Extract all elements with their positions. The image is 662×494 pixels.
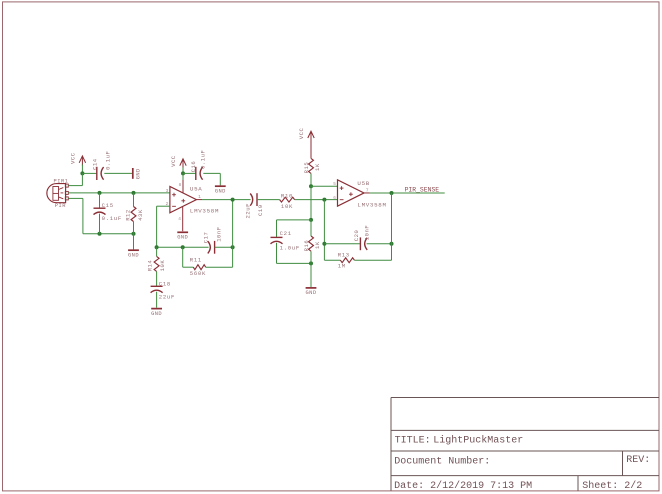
svg-text:0.1uF: 0.1uF	[200, 150, 207, 169]
title block	[391, 398, 659, 491]
node junction bias-bot	[309, 261, 313, 265]
svg-text:Document Number:: Document Number:	[394, 455, 490, 467]
svg-text:PIR1: PIR1	[54, 178, 69, 184]
wire	[82, 172, 96, 174]
title text	[395, 435, 524, 447]
wire	[277, 243, 312, 264]
wire	[156, 271, 158, 286]
capacitor C21 1.0uF	[271, 230, 300, 252]
wire	[323, 200, 325, 261]
svg-text:GND: GND	[306, 290, 317, 296]
svg-text:VCC: VCC	[170, 155, 177, 167]
R16 labels	[303, 240, 321, 252]
svg-text:C15: C15	[102, 202, 114, 209]
svg-text:GND: GND	[177, 235, 188, 241]
svg-text:6: 6	[333, 196, 336, 201]
wire	[133, 222, 135, 250]
wire	[99, 193, 101, 208]
resistor R10 10K	[280, 197, 295, 202]
wire	[203, 173, 220, 185]
node junction fb-left	[155, 245, 159, 249]
wire	[367, 243, 392, 245]
wire	[156, 292, 158, 308]
svg-text:Date: 2/12/2019 7:13 PM: Date: 2/12/2019 7:13 PM	[394, 480, 532, 492]
wire	[310, 140, 312, 159]
document number text	[394, 455, 490, 467]
wire	[183, 172, 195, 174]
svg-text:10K: 10K	[281, 203, 293, 210]
svg-text:10K: 10K	[159, 260, 166, 272]
svg-text:R10: R10	[281, 193, 293, 200]
wire	[310, 220, 312, 236]
R15 labels	[303, 162, 321, 174]
wire	[104, 172, 132, 174]
wire	[215, 246, 233, 248]
wire	[257, 199, 280, 201]
wire	[324, 259, 340, 261]
svg-text:R12: R12	[124, 209, 131, 221]
svg-text:1.0uF: 1.0uF	[280, 245, 300, 252]
svg-text:GND: GND	[151, 311, 162, 317]
svg-text:560K: 560K	[190, 270, 206, 277]
svg-text:C17: C17	[203, 232, 210, 244]
wire	[324, 243, 360, 245]
svg-text:1K: 1K	[314, 163, 321, 171]
capacitor C19 22uF	[244, 193, 263, 218]
svg-text:REV:: REV:	[626, 455, 650, 466]
svg-text:8: 8	[179, 183, 182, 188]
node junction fb2-right	[390, 242, 394, 246]
svg-text:22uF: 22uF	[159, 293, 175, 300]
capacitor C17 10nF	[203, 226, 223, 253]
svg-text:R15: R15	[303, 162, 310, 174]
capacitor C20 10nF	[353, 225, 371, 250]
svg-text:VCC: VCC	[70, 152, 77, 164]
node junction out2	[390, 191, 394, 195]
ground (after C16)	[215, 186, 226, 194]
wire	[68, 198, 133, 233]
svg-text:LMV358M: LMV358M	[190, 208, 219, 215]
wire	[157, 246, 209, 248]
ground (below C18)	[151, 309, 162, 317]
capacitor C15	[94, 202, 122, 222]
ground (U5A pin 4)	[177, 232, 188, 240]
node junction out1	[231, 198, 235, 202]
wire	[99, 214, 101, 234]
svg-text:GND: GND	[128, 253, 139, 259]
svg-text:0.1uF: 0.1uF	[102, 215, 122, 222]
date text	[394, 480, 532, 492]
R11 labels	[190, 256, 206, 277]
svg-text:PIR_SENSE: PIR_SENSE	[405, 187, 440, 194]
wire	[295, 199, 338, 201]
capacitor C18 22uF	[151, 281, 175, 301]
wire	[182, 167, 184, 173]
R12 labels	[124, 209, 144, 221]
svg-text:10nF: 10nF	[215, 226, 222, 241]
svg-text:4: 4	[178, 217, 181, 222]
PIR sensor PIR1	[47, 178, 69, 208]
node junction pin6	[322, 198, 326, 202]
svg-text:10nF: 10nF	[363, 225, 370, 240]
svg-text:0.1uF: 0.1uF	[105, 151, 112, 170]
svg-text:R13: R13	[338, 251, 350, 258]
wire	[156, 247, 158, 256]
wire	[81, 165, 83, 174]
R14 labels	[147, 260, 167, 272]
svg-text:1K: 1K	[314, 241, 321, 249]
svg-text:R14: R14	[147, 260, 154, 272]
svg-text:C19: C19	[257, 204, 264, 216]
svg-text:Sheet: 2/2: Sheet: 2/2	[582, 480, 642, 492]
wire	[277, 220, 312, 238]
node junction C15	[98, 191, 102, 195]
svg-text:C20: C20	[353, 229, 360, 241]
svg-text:22uF: 22uF	[244, 203, 251, 218]
resistor R14 10K	[154, 256, 159, 271]
ground (after C14)	[133, 168, 142, 179]
ground (bias divider)	[306, 288, 317, 296]
svg-text:VCC: VCC	[298, 127, 305, 139]
svg-text:GND: GND	[215, 189, 226, 195]
svg-text:C18: C18	[159, 281, 171, 288]
wire	[310, 186, 312, 220]
svg-text:PIR: PIR	[55, 203, 66, 209]
wire	[364, 192, 370, 194]
op-amp U5B LMV358M	[333, 180, 386, 209]
node junction VCC1	[80, 171, 84, 175]
svg-text:U5A: U5A	[190, 186, 203, 193]
op-amp U5A pin 8 wire	[179, 173, 183, 192]
power VCC (bias)	[298, 127, 314, 140]
wire	[391, 193, 393, 260]
node junction bias-mid	[309, 218, 313, 222]
power VCC (U5A)	[170, 155, 186, 168]
svg-text:C16: C16	[190, 161, 197, 173]
svg-text:R16: R16	[303, 240, 310, 252]
wire	[196, 199, 202, 201]
wire	[310, 173, 312, 186]
node junction R12	[132, 191, 136, 195]
node junction fb-right	[231, 245, 235, 249]
svg-text:LightPuckMaster: LightPuckMaster	[433, 435, 523, 447]
svg-text:43K: 43K	[137, 209, 144, 221]
wire	[370, 192, 445, 194]
node junction fb-R11	[181, 245, 185, 249]
svg-text:5: 5	[333, 182, 336, 187]
svg-text:C21: C21	[280, 230, 292, 237]
wire	[183, 247, 194, 267]
wire	[354, 259, 391, 261]
wire	[157, 206, 170, 247]
power VCC (PIR)	[70, 152, 86, 165]
wire	[310, 251, 312, 287]
capacitor C14	[92, 151, 112, 180]
node junction VCC-U5A	[181, 171, 185, 175]
capacitor C16	[190, 150, 206, 180]
svg-text:LMV358M: LMV358M	[357, 201, 386, 208]
svg-text:C14: C14	[92, 158, 99, 170]
resistor R11 560K	[193, 265, 205, 270]
wire	[68, 192, 170, 194]
op-amp U5A LMV358M	[166, 186, 220, 215]
op-amp U5A pin 4 wire	[178, 207, 182, 231]
sheet text	[582, 480, 642, 492]
svg-text:1M: 1M	[338, 262, 346, 269]
node junction rail-R12	[132, 232, 136, 236]
resistor R16 1K	[309, 236, 314, 251]
R10 labels	[281, 193, 293, 210]
svg-text:U5B: U5B	[357, 180, 370, 187]
wire	[68, 173, 82, 185]
ground (below R12)	[128, 250, 139, 258]
svg-text:R11: R11	[190, 256, 202, 263]
wire	[202, 199, 251, 201]
net label PIR_SENSE	[405, 187, 440, 194]
svg-text:GND: GND	[135, 168, 141, 179]
node junction rail-C15	[98, 232, 102, 236]
svg-text:3: 3	[166, 189, 169, 194]
wire	[311, 185, 338, 187]
wire	[206, 200, 233, 268]
resistor R13 1M	[340, 258, 354, 263]
svg-text:TITLE:: TITLE:	[395, 436, 431, 447]
resistor R12 43K	[131, 207, 136, 222]
node junction bias-top	[309, 184, 313, 188]
rev text	[626, 455, 650, 466]
wire	[133, 193, 135, 207]
node junction fb2-left	[322, 242, 326, 246]
R13 labels	[338, 251, 350, 269]
resistor R15 1K	[309, 158, 314, 173]
